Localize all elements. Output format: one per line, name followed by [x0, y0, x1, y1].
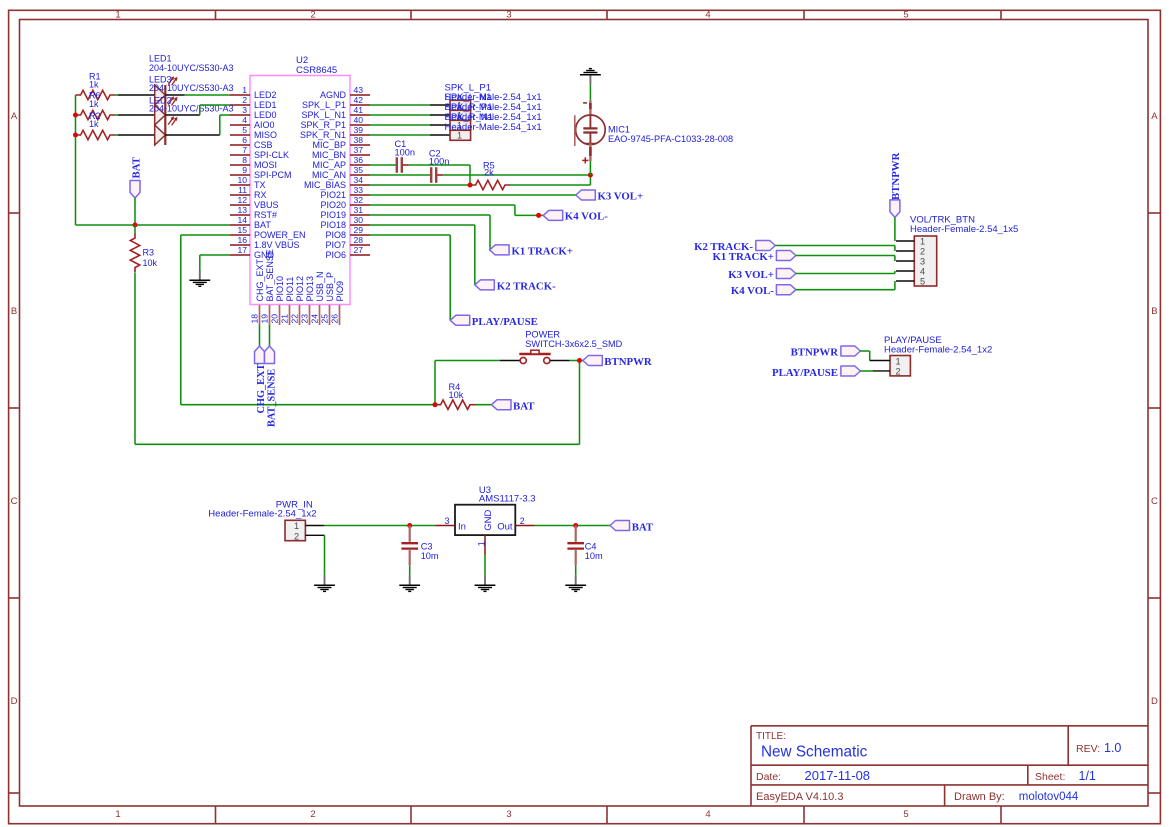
svg-text:1k: 1k — [89, 99, 99, 109]
svg-text:2: 2 — [896, 367, 901, 377]
wire PWR_IN pin1 to U3 In — [305, 525, 435, 527]
net flag K1 TRACK+ left — [490, 245, 573, 258]
ground at C3 — [399, 575, 420, 591]
U2 pin 40 SPK_R_P1 — [300, 115, 370, 130]
svg-text:5: 5 — [903, 809, 908, 820]
svg-text:PIO10: PIO10 — [275, 276, 285, 302]
net flag K3 VOL+ left — [576, 190, 643, 202]
net flag PLAY/PAUSE left — [450, 315, 538, 328]
svg-text:24: 24 — [309, 314, 319, 324]
junction BAT node — [133, 223, 138, 228]
svg-text:31: 31 — [354, 205, 364, 215]
connector P PLAY/PAUSE Header-Female-2.54_1x2 — [870, 335, 993, 377]
U2 pin 29 PIO8 — [325, 225, 370, 240]
svg-text:BTNPWR: BTNPWR — [604, 356, 652, 368]
svg-text:R3: R3 — [143, 248, 155, 258]
svg-text:12: 12 — [237, 195, 247, 205]
junction R5 left — [468, 183, 473, 188]
svg-text:New Schematic: New Schematic — [761, 744, 868, 761]
svg-text:C3: C3 — [421, 541, 433, 551]
svg-text:A: A — [1151, 111, 1158, 122]
svg-text:LED2: LED2 — [254, 90, 277, 100]
svg-text:2: 2 — [920, 246, 925, 256]
svg-text:38: 38 — [354, 135, 364, 145]
wire U2 pin30 to K2 TRACK- — [370, 225, 475, 285]
wire R1 to LED1 anode — [115, 94, 155, 96]
wire U2 pin39 to SPK_R_N1 — [370, 134, 450, 136]
wire BAT row to U2 pin14 — [76, 224, 231, 226]
svg-text:Header-Male-2.54_1x1: Header-Male-2.54_1x1 — [445, 122, 542, 133]
svg-text:Header-Female-2.54_1x2: Header-Female-2.54_1x2 — [884, 344, 992, 355]
svg-text:In: In — [458, 521, 466, 532]
svg-text:BTNPWR: BTNPWR — [890, 152, 902, 200]
svg-text:CSR8645: CSR8645 — [296, 65, 337, 76]
wire C2 to MIC junction — [437, 174, 590, 176]
net flag BAT at R4 — [492, 400, 536, 413]
svg-text:LED1: LED1 — [254, 100, 277, 110]
svg-text:43: 43 — [354, 85, 364, 95]
svg-text:SPK_R_N1: SPK_R_N1 — [300, 130, 346, 140]
svg-text:SWITCH-3x6x2.5_SMD: SWITCH-3x6x2.5_SMD — [525, 339, 622, 349]
wire LED2 cathode to U2 pin2 — [165, 105, 230, 115]
U2 pin 9 SPI-PCM — [230, 165, 292, 180]
svg-text:10k: 10k — [449, 390, 464, 400]
svg-text:PIO8: PIO8 — [325, 230, 346, 240]
svg-text:11: 11 — [238, 185, 247, 195]
regulator U3 AMS1117-3.3 — [435, 485, 535, 555]
svg-text:SPI-PCM: SPI-PCM — [254, 170, 292, 180]
wire K2 TRACK- to header pin2 — [775, 246, 895, 252]
svg-text:B: B — [1151, 306, 1157, 317]
U2 pin 8 MOSI — [230, 155, 277, 170]
svg-text:2: 2 — [294, 531, 299, 541]
svg-text:USB_N: USB_N — [315, 271, 325, 301]
svg-text:18: 18 — [249, 314, 259, 324]
svg-text:PIO20: PIO20 — [320, 200, 346, 210]
wire LED3 cathode to U2 pin3 — [165, 115, 230, 135]
U2 pin 41 SPK_L_N1 — [301, 105, 370, 120]
U2 pin 34 MIC_BIAS — [304, 175, 370, 190]
wire K3 VOL+ to header pin4 — [796, 271, 895, 274]
net flag K3 VOL+ right — [728, 269, 796, 282]
U2 pin 32 PIO20 — [320, 195, 370, 210]
svg-text:BTNPWR: BTNPWR — [791, 347, 839, 359]
svg-text:36: 36 — [354, 155, 364, 165]
U2 pin 4 AIO0 — [230, 115, 275, 130]
U2 pin 13 RST# — [230, 205, 277, 220]
svg-text:BAT_SENSE: BAT_SENSE — [265, 249, 275, 301]
svg-text:17: 17 — [237, 245, 247, 255]
svg-text:204-10UYC/S530-A3: 204-10UYC/S530-A3 — [149, 83, 234, 93]
net flag K4 VOL- right — [731, 285, 796, 298]
wire U2 pin36 to C1 — [370, 164, 396, 166]
wire BTNPWR to header pin1 — [894, 217, 896, 241]
svg-text:BAT: BAT — [254, 220, 271, 230]
svg-text:1: 1 — [896, 356, 901, 366]
svg-text:MIC_BP: MIC_BP — [312, 140, 346, 150]
svg-text:4: 4 — [705, 809, 710, 820]
svg-text:D: D — [11, 696, 18, 707]
U2 pin 3 LED0 — [230, 105, 277, 120]
svg-text:8: 8 — [242, 155, 247, 165]
svg-text:EasyEDA V4.10.3: EasyEDA V4.10.3 — [756, 791, 843, 803]
svg-text:C4: C4 — [585, 541, 597, 551]
wire ground to MIC1 — [589, 85, 591, 100]
svg-text:RX: RX — [254, 190, 267, 200]
svg-text:5: 5 — [242, 125, 247, 135]
wire U2 pin31 to K1 TRACK+ — [370, 215, 490, 250]
svg-text:SPK_L_N1: SPK_L_N1 — [301, 110, 346, 120]
wire R2 to LED3 anode — [115, 134, 155, 136]
net flag BAT top — [130, 156, 143, 225]
switch SW POWER SWITCH-3x6x2.5_SMD — [500, 330, 623, 364]
resistor R3 10k — [130, 225, 157, 273]
U2 pin 28 PIO7 — [325, 235, 370, 250]
svg-text:PIO6: PIO6 — [325, 250, 346, 260]
svg-text:10k: 10k — [143, 258, 158, 268]
U2 pin 31 PIO19 — [320, 205, 370, 220]
svg-text:K3 VOL+: K3 VOL+ — [598, 190, 644, 202]
svg-text:19: 19 — [259, 314, 269, 324]
svg-text:PIO13: PIO13 — [305, 276, 315, 302]
wire R4 junction to switch — [435, 361, 500, 405]
svg-text:3: 3 — [506, 809, 511, 820]
svg-text:SPK_L_P1: SPK_L_P1 — [302, 100, 346, 110]
wire K4 VOL- to header pin5 — [796, 281, 895, 290]
wire BTNPWR to 1x2 header pin1 — [860, 351, 869, 361]
svg-text:VBUS: VBUS — [254, 200, 279, 210]
svg-text:1.8V VBUS: 1.8V VBUS — [254, 240, 300, 250]
connector SPK header 4 Header-Male-2.54_1x1 — [450, 130, 471, 140]
svg-text:1: 1 — [294, 521, 299, 531]
svg-text:32: 32 — [354, 195, 364, 205]
svg-text:CSB: CSB — [254, 140, 273, 150]
net flag BTNPWR switch — [583, 356, 652, 369]
wire MIC1 to junction — [589, 161, 591, 175]
U2 pin 23 PIO13 — [299, 276, 315, 325]
U2 pin 12 VBUS — [230, 195, 279, 210]
svg-text:PIO21: PIO21 — [320, 190, 346, 200]
svg-text:BAT: BAT — [632, 521, 654, 533]
net flag K2 TRACK- left — [475, 280, 556, 292]
svg-text:K2 TRACK-: K2 TRACK- — [497, 280, 556, 292]
wire U2 pin32 to K4 VOL- — [370, 205, 543, 215]
svg-text:10m: 10m — [585, 551, 603, 561]
svg-text:MOSI: MOSI — [254, 160, 277, 170]
svg-text:100n: 100n — [429, 157, 449, 167]
capacitor C3 10m — [401, 526, 439, 576]
LED LED3 204-10UYC/S530-A3 — [149, 74, 234, 125]
svg-text:20: 20 — [269, 314, 279, 324]
U2 pin 22 PIO12 — [289, 276, 305, 325]
svg-text:39: 39 — [354, 125, 364, 135]
svg-text:K4 VOL-: K4 VOL- — [565, 211, 608, 223]
LED LED1 204-10UYC/S530-A3 — [149, 54, 234, 106]
svg-text:AMS1117-3.3: AMS1117-3.3 — [479, 494, 536, 505]
svg-text:33: 33 — [354, 185, 364, 195]
wire PLAY/PAUSE to 1x2 header pin2 — [860, 370, 873, 372]
wire U2 pin40 to SPK_R_P1 — [370, 124, 450, 126]
junction BTNPWR node — [577, 358, 582, 363]
svg-text:Sheet:: Sheet: — [1035, 771, 1065, 783]
svg-text:2: 2 — [520, 516, 525, 526]
net flag BAT_SENSE — [265, 346, 278, 427]
svg-text:41: 41 — [354, 105, 364, 115]
svg-text:7: 7 — [242, 145, 247, 155]
net flag BAT at U3 out — [610, 521, 654, 534]
junction C3 top — [407, 523, 412, 528]
svg-text:PIO7: PIO7 — [325, 240, 346, 250]
ground at C4 — [565, 575, 586, 591]
svg-text:10: 10 — [237, 175, 247, 185]
svg-text:2k: 2k — [484, 167, 494, 177]
wire R4 to BAT flag — [475, 404, 492, 406]
svg-text:Header-Female-2.54_1x2: Header-Female-2.54_1x2 — [208, 509, 316, 520]
net flag BTNPWR right lower — [791, 346, 861, 359]
svg-text:TITLE:: TITLE: — [756, 731, 786, 742]
svg-text:4: 4 — [920, 266, 925, 276]
wire U2 pin33 to K3 VOL+ — [370, 194, 576, 196]
svg-text:23: 23 — [299, 314, 309, 324]
svg-text:10m: 10m — [421, 551, 439, 561]
net flag CHG_EXT — [255, 346, 268, 414]
svg-text:BAT_SENSE: BAT_SENSE — [266, 369, 277, 427]
svg-text:1: 1 — [242, 85, 247, 95]
wire U3 GND to ground — [484, 555, 486, 575]
wire U2 pin17 GND — [200, 255, 230, 270]
junction on vertical bus row 115 — [73, 113, 78, 118]
svg-text:GND: GND — [483, 510, 494, 531]
U2 pin 42 SPK_L_P1 — [302, 95, 370, 110]
U2 pin 18 CHG_EXT — [249, 258, 265, 325]
op IC U2 CSR8645 body — [250, 55, 350, 305]
svg-text:PIO18: PIO18 — [320, 220, 346, 230]
svg-text:1k: 1k — [89, 79, 99, 89]
connector SPK header 3 Header-Male-2.54_1x1 — [450, 120, 471, 130]
LED LED2 204-10UYC/S530-A3 — [149, 95, 234, 145]
svg-text:6: 6 — [242, 135, 247, 145]
title block — [751, 726, 1148, 806]
wire R3 bottom run — [135, 273, 580, 444]
svg-text:42: 42 — [354, 95, 364, 105]
U2 pin 11 RX — [230, 185, 267, 200]
U2 pin 20 PIO10 — [269, 276, 285, 325]
wire U2 pin42 to SPK_L_P1 — [370, 104, 450, 106]
wire POWER_EN U2 pin15 to R4 — [181, 235, 435, 405]
svg-text:1: 1 — [115, 9, 120, 20]
U2 pin 1 LED2 — [230, 85, 277, 100]
SPK header stack labels — [445, 83, 542, 134]
junction MIC plus node — [588, 173, 593, 178]
net flag K2 TRACK- right — [694, 241, 775, 254]
svg-text:PIO9: PIO9 — [335, 281, 345, 302]
wire U2 pin29 to PLAY/PAUSE — [370, 235, 450, 320]
wire U2 pin19 to BAT_SENSE flag — [269, 325, 271, 346]
svg-text:D: D — [1151, 696, 1158, 707]
svg-text:3: 3 — [242, 105, 247, 115]
svg-text:28: 28 — [354, 235, 364, 245]
wire R5 to MIC plus — [510, 175, 590, 185]
svg-text:37: 37 — [354, 145, 364, 155]
wire switch to BTNPWR — [570, 360, 583, 362]
U2 pin 24 USB_N — [309, 271, 325, 325]
ground at PWR_IN pin2 — [314, 575, 335, 591]
U2 pin 7 SPI-CLK — [230, 145, 289, 160]
svg-text:C: C — [11, 496, 18, 507]
svg-text:26: 26 — [329, 314, 339, 324]
svg-text:Date:: Date: — [756, 771, 781, 783]
svg-text:USB_P: USB_P — [325, 272, 335, 302]
net flag PLAY/PAUSE right — [772, 366, 860, 379]
junction K4 VOL- — [536, 213, 541, 218]
capacitor C1 100n — [395, 139, 415, 173]
svg-text:Out: Out — [497, 521, 513, 532]
resistor R1 1k — [76, 72, 116, 100]
wire BAT vertical bus left — [75, 95, 77, 225]
svg-text:16: 16 — [237, 235, 247, 245]
connector SPK header 1 Header-Male-2.54_1x1 — [450, 100, 471, 110]
resistor R4 10k — [436, 382, 476, 409]
svg-text:1.0: 1.0 — [1104, 741, 1121, 755]
U2 pin 38 MIC_BP — [312, 135, 370, 150]
svg-text:PIO11: PIO11 — [285, 277, 295, 302]
svg-text:C: C — [1151, 496, 1158, 507]
svg-text:35: 35 — [354, 165, 364, 175]
U2 pin 36 MIC_AP — [312, 155, 370, 170]
U2 pin 16 1.8V VBUS — [230, 235, 300, 250]
svg-text:3: 3 — [920, 256, 925, 266]
resistor R2 1k — [76, 111, 116, 140]
svg-text:1: 1 — [115, 809, 120, 820]
connector P VOL/TRK_BTN Header-Female-2.54_1x5 — [896, 214, 1018, 286]
svg-text:25: 25 — [319, 314, 329, 324]
svg-text:21: 21 — [279, 314, 289, 324]
svg-text:PLAY/PAUSE: PLAY/PAUSE — [772, 367, 838, 379]
svg-text:TX: TX — [254, 180, 266, 190]
svg-text:AGND: AGND — [320, 90, 347, 100]
U2 pin 5 MISO — [230, 125, 277, 140]
capacitor C4 10m — [567, 526, 603, 576]
wire C1 to R5 junction — [403, 165, 470, 185]
svg-text:MISO: MISO — [254, 130, 277, 140]
svg-text:4: 4 — [242, 115, 247, 125]
svg-text:K3 VOL+: K3 VOL+ — [728, 269, 774, 281]
svg-text:BAT: BAT — [513, 401, 535, 413]
svg-text:REV:: REV: — [1076, 743, 1100, 755]
svg-text:40: 40 — [354, 115, 364, 125]
U2 pin 39 SPK_R_N1 — [300, 125, 370, 140]
svg-text:3: 3 — [445, 516, 450, 526]
svg-text:1: 1 — [920, 236, 925, 246]
U2 pin 10 TX — [230, 175, 266, 190]
U2 pin 30 PIO18 — [320, 215, 370, 230]
wire U2 pin18 to CHG_EXT flag — [259, 325, 261, 346]
svg-text:27: 27 — [354, 245, 364, 255]
svg-text:34: 34 — [354, 175, 364, 185]
svg-text:A: A — [11, 111, 18, 122]
svg-text:1: 1 — [476, 541, 486, 546]
U2 pin 37 MIC_BN — [312, 145, 370, 160]
U2 pin 17 GND — [230, 245, 275, 260]
svg-text:22: 22 — [289, 314, 299, 324]
svg-text:1/1: 1/1 — [1079, 769, 1096, 783]
svg-text:2: 2 — [310, 9, 315, 20]
svg-text:2: 2 — [310, 809, 315, 820]
svg-text:SPI-CLK: SPI-CLK — [254, 150, 289, 160]
resistor R6 1k — [76, 90, 116, 119]
U2 pin 14 BAT — [230, 215, 271, 230]
svg-text:AIO0: AIO0 — [254, 120, 275, 130]
net flag K1 TRACK+ right — [712, 251, 795, 264]
wire K1 TRACK+ to header pin3 — [796, 256, 895, 262]
svg-text:9: 9 — [242, 165, 247, 175]
U2 pin 35 MIC_AN — [312, 165, 370, 180]
U2 pin 19 BAT_SENSE — [259, 249, 275, 325]
U2 pin 25 USB_P — [319, 272, 335, 325]
wire R6 to LED2 anode — [115, 114, 155, 116]
U2 pin 43 AGND — [320, 85, 370, 100]
connector PWR_IN Header-Female-2.54_1x2 — [208, 499, 316, 541]
svg-text:SPK_R_P1: SPK_R_P1 — [300, 120, 346, 130]
U2 pin 33 PIO21 — [320, 185, 370, 200]
ground above MIC1 — [580, 69, 601, 85]
svg-text:PLAY/PAUSE: PLAY/PAUSE — [472, 316, 538, 328]
junction R4 left — [433, 402, 438, 407]
wire PWR_IN pin2 to ground — [305, 535, 324, 575]
svg-text:PIO12: PIO12 — [295, 276, 305, 302]
svg-text:2: 2 — [242, 95, 247, 105]
svg-text:CHG_EXT: CHG_EXT — [255, 258, 265, 301]
svg-text:molotov044: molotov044 — [1019, 791, 1079, 803]
ground at U2 GND — [189, 270, 210, 286]
U2 pin 6 CSB — [230, 135, 273, 150]
svg-text:15: 15 — [237, 225, 247, 235]
svg-text:EAO-9745-PFA-C1033-28-008: EAO-9745-PFA-C1033-28-008 — [608, 134, 733, 144]
svg-text:Drawn By:: Drawn By: — [954, 791, 1005, 803]
svg-text:MIC_BIAS: MIC_BIAS — [304, 180, 346, 190]
svg-text:29: 29 — [354, 225, 364, 235]
svg-text:MIC1: MIC1 — [608, 124, 630, 134]
microphone MIC1 EAO-9745-PFA-C1033-28-008 — [575, 100, 733, 163]
wire U3 Out to BAT — [535, 525, 611, 527]
svg-text:K1 TRACK+: K1 TRACK+ — [512, 245, 573, 257]
U2 pin 15 POWER_EN — [230, 225, 306, 240]
capacitor C2 100n — [429, 148, 449, 182]
svg-text:LED0: LED0 — [254, 110, 277, 120]
svg-text:Header-Female-2.54_1x5: Header-Female-2.54_1x5 — [910, 224, 1018, 235]
ground at U3 — [475, 575, 496, 591]
svg-text:204-10UYC/S530-A3: 204-10UYC/S530-A3 — [149, 63, 234, 73]
svg-text:2017-11-08: 2017-11-08 — [805, 768, 871, 783]
svg-text:RST#: RST# — [254, 210, 277, 220]
svg-text:K4 VOL-: K4 VOL- — [731, 285, 774, 297]
U2 pin 21 PIO11 — [279, 277, 295, 325]
svg-text:100n: 100n — [395, 147, 415, 157]
svg-text:3: 3 — [506, 9, 511, 20]
wire LED1 cathode to U2 pin1 — [165, 94, 230, 96]
U2 pin 2 LED1 — [230, 95, 277, 110]
svg-text:4: 4 — [705, 9, 710, 20]
svg-text:PIO19: PIO19 — [320, 210, 346, 220]
svg-text:5: 5 — [903, 9, 908, 20]
net flag K4 VOL- left — [543, 210, 608, 222]
junction C4 top — [573, 523, 578, 528]
svg-text:1k: 1k — [89, 119, 99, 129]
svg-text:MIC_BN: MIC_BN — [312, 150, 346, 160]
wire U2 pin41 to SPK_L_N1 — [370, 114, 450, 116]
svg-text:5: 5 — [920, 276, 925, 286]
junction on vertical bus row 135 — [73, 133, 78, 138]
